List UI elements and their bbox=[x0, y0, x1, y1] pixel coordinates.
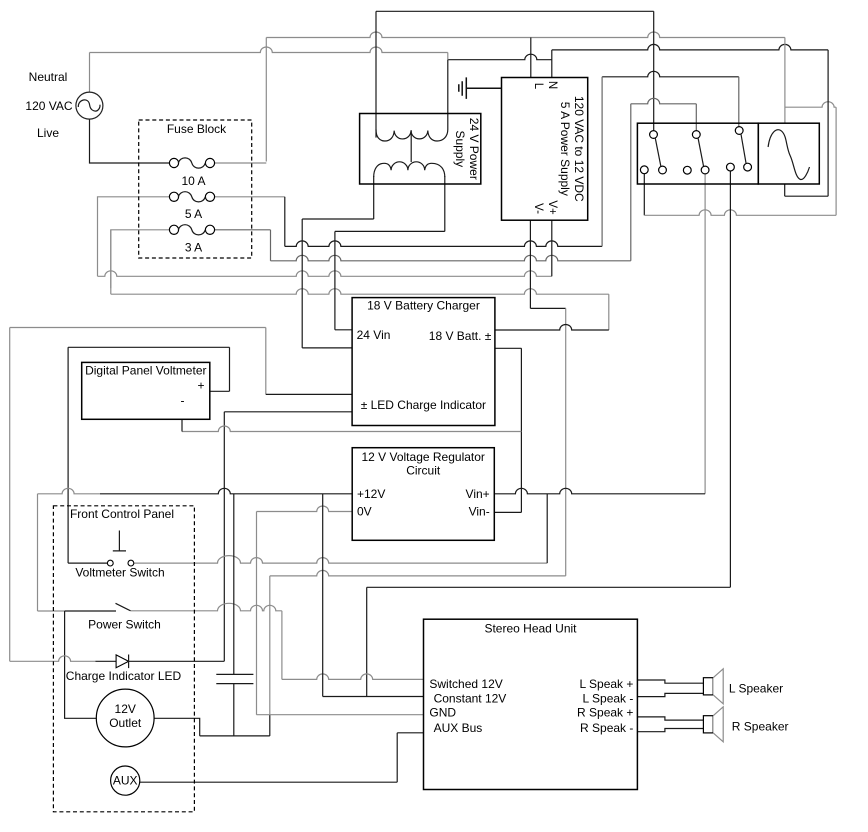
wire R speaker + lead bbox=[637, 717, 703, 720]
stereo head unit box bbox=[424, 619, 638, 789]
fuse block dashed box bbox=[139, 120, 252, 258]
svg-text:0V: 0V bbox=[357, 505, 372, 519]
wire riser x447.8 neutral down to transformer primary right bbox=[447, 60, 449, 130]
switch S1 arm terminal bbox=[659, 166, 667, 174]
wire 5A riser x284.8 down bbox=[284, 197, 286, 247]
wire voltmeter-switch feed top y327.5 bbox=[10, 327, 266, 329]
wire 5A fuse left to V+ rail riser bbox=[98, 197, 170, 276]
voltmeter switch plunger bbox=[113, 531, 126, 551]
wire transformer secondary right drop x444.8 bbox=[444, 176, 446, 231]
wire voltmeter plus riser x229.5 bbox=[229, 347, 231, 391]
svg-text:Switched 12V: Switched 12V bbox=[429, 677, 502, 691]
wire 3A to battery bus y294.2 bbox=[111, 289, 609, 295]
wire 3A fuse left bbox=[111, 230, 170, 288]
wire switch1 output y215.3 to right loop bbox=[644, 210, 836, 216]
wire secondary right riser x334.9 bbox=[334, 231, 336, 329]
svg-text:AUX: AUX bbox=[113, 774, 138, 788]
svg-text:L Speak +: L Speak + bbox=[579, 677, 633, 691]
wire charger pin2 y347.9 bbox=[302, 347, 352, 349]
svg-text:+12V: +12V bbox=[357, 487, 385, 501]
wire switched12V y679.4 bbox=[282, 674, 424, 680]
AUX jack circle bbox=[111, 766, 140, 795]
switch box bbox=[637, 123, 758, 184]
wire switch2 input riser x696.3 bbox=[695, 104, 697, 131]
switch S1 output terminal bbox=[640, 166, 648, 174]
svg-text:± LED Charge Indicator: ± LED Charge Indicator bbox=[361, 398, 486, 412]
wire L speaker + lead bbox=[637, 680, 703, 683]
R speaker icon bbox=[703, 716, 713, 733]
wire riser x376 top bus down to transformer primary left bbox=[375, 11, 377, 137]
wire V+ bus y276.3 bbox=[98, 271, 552, 277]
svg-text:5 A Power Supply: 5 A Power Supply bbox=[558, 102, 572, 196]
wire LED anode feed y661.3 bbox=[10, 656, 96, 662]
svg-text:V-: V- bbox=[532, 203, 544, 214]
svg-text:18 V Batt. ±: 18 V Batt. ± bbox=[429, 329, 492, 343]
wire N loop down x828.1 bbox=[827, 50, 829, 196]
svg-text:Power Switch: Power Switch bbox=[88, 618, 161, 632]
switch S1 arm bbox=[655, 138, 661, 166]
wire N loop bottom y196.2 bbox=[785, 195, 828, 197]
wire 10A fuse output to riser bbox=[215, 162, 267, 164]
wire LED drop x224.3 bbox=[223, 412, 225, 662]
wire inverter top feed y107.2 bbox=[785, 102, 836, 107]
wire Vin- y512.4 bbox=[494, 511, 521, 513]
wire outlet return y735.9 bbox=[200, 735, 270, 737]
wire switch3 input riser x738.8 bbox=[738, 77, 740, 127]
switch S2 arm bbox=[698, 138, 703, 166]
wire switch1 input riser x653.7 bbox=[653, 11, 655, 130]
svg-text:Supply: Supply bbox=[453, 130, 467, 167]
switch S3 arm terminal bbox=[744, 163, 752, 171]
wire +12V rail left gray part y493.8 bbox=[38, 488, 101, 493]
wire inverter top riser x784.9 bbox=[784, 38, 786, 124]
svg-text:Charge Indicator LED: Charge Indicator LED bbox=[66, 669, 182, 683]
svg-text:Stereo Head Unit: Stereo Head Unit bbox=[484, 622, 577, 636]
wire outlet left feed x64.6 bbox=[65, 611, 97, 718]
wire secondary left y219 bbox=[302, 218, 374, 220]
svg-text:3 A: 3 A bbox=[185, 241, 202, 255]
svg-text:+: + bbox=[197, 379, 204, 393]
inverter sine wave bbox=[768, 130, 809, 180]
wire 3A right riser x270.5 down bbox=[270, 230, 272, 261]
wire switch2 output drop x705.1 to +12V rail bbox=[704, 174, 706, 494]
wire voltmeter plus top y347.3 bbox=[68, 346, 229, 348]
fuse F2 5A bbox=[169, 192, 178, 201]
18V battery charger box bbox=[352, 298, 495, 426]
svg-text:120 VAC to 12 VDC: 120 VAC to 12 VDC bbox=[572, 96, 586, 202]
front control panel dashed box bbox=[53, 506, 194, 812]
digital panel voltmeter box bbox=[82, 362, 210, 419]
wire +12V rail left y493.8 bbox=[100, 488, 352, 493]
svg-text:Constant 12V: Constant 12V bbox=[434, 691, 507, 705]
wire 0V drop x256.5 bbox=[256, 512, 258, 715]
AC source sine bbox=[78, 100, 100, 111]
wire constant12V y696.5 bbox=[323, 696, 424, 698]
transformer primary coil bbox=[376, 130, 448, 142]
svg-text:24 Vin: 24 Vin bbox=[357, 328, 391, 342]
wire switch1 output drop x644.3 bbox=[643, 174, 645, 215]
wire inverter bottom stub x784.7 bbox=[784, 184, 786, 196]
12V voltage regulator box bbox=[352, 448, 494, 541]
voltmeter switch right terminal bbox=[128, 560, 134, 566]
wire switch3 feed y76.8 bbox=[602, 71, 739, 77]
wire LED cathode y661.3 bbox=[129, 660, 225, 662]
wire AUX line y782 bbox=[140, 781, 397, 783]
switch S2 spare terminal bbox=[683, 166, 691, 174]
svg-text:5 A: 5 A bbox=[185, 207, 202, 221]
wire 18V batt- y348.3 bbox=[495, 347, 522, 349]
svg-text:L Speak -: L Speak - bbox=[582, 691, 633, 705]
svg-text:N: N bbox=[546, 81, 558, 89]
ground symbol bbox=[459, 77, 502, 99]
wire neutral y52.5 from AC source to transformer right riser bbox=[90, 47, 448, 52]
svg-text:L Speaker: L Speaker bbox=[729, 681, 783, 695]
svg-text:Circuit: Circuit bbox=[406, 464, 441, 478]
wire Vin+ rail y493.8 right bbox=[494, 488, 705, 493]
switch S1 input terminal bbox=[650, 131, 658, 139]
wire voltmeter switch riser x547.2 bbox=[546, 494, 548, 563]
wire 18V batt+ y330 bbox=[495, 325, 609, 331]
wire left drop x9.7 bbox=[9, 328, 11, 662]
wire voltmeter plus pin y391.3 bbox=[210, 390, 230, 392]
fuse F1 10A bbox=[169, 158, 178, 167]
svg-text:Voltmeter Switch: Voltmeter Switch bbox=[75, 566, 164, 580]
wire V- to outlet return x269.8 lower bbox=[269, 715, 271, 736]
wire power supply L pin riser x530.8 bbox=[530, 38, 532, 78]
svg-text:120 VAC: 120 VAC bbox=[25, 99, 72, 113]
wire charger 24Vin pin y329.8 bbox=[335, 329, 352, 331]
wire R speaker - lead bbox=[637, 729, 703, 732]
power switch arm bbox=[116, 603, 131, 611]
wire N net y49.9 from N pin to right loop bbox=[552, 44, 828, 49]
wire voltmeter plus drop x68.1 bbox=[67, 347, 69, 563]
wire 5A fuse right bbox=[215, 196, 285, 198]
svg-text:-: - bbox=[181, 394, 185, 408]
svg-text:Outlet: Outlet bbox=[109, 716, 142, 730]
svg-text:24 V Power: 24 V Power bbox=[467, 118, 481, 180]
wire capacitor bottom lead x233.8 bbox=[233, 684, 235, 736]
wire switch2 feed y103.8 bbox=[631, 98, 697, 104]
120VAC-12VDC power supply box U1 bbox=[502, 78, 588, 221]
svg-text:AUX Bus: AUX Bus bbox=[434, 721, 483, 735]
wire voltmeter minus bus y431.5 bbox=[182, 426, 521, 432]
wire voltmeter minus pin stub x182 bbox=[181, 419, 183, 431]
svg-text:R Speak -: R Speak - bbox=[580, 721, 633, 735]
svg-text:V+: V+ bbox=[546, 200, 558, 215]
wire V- drop x565.7 bbox=[565, 308, 567, 576]
wire V- bus y575.9 bbox=[270, 570, 566, 576]
wire V- drop x269.8 bbox=[269, 576, 271, 715]
wire riser x447.8 neutral upper bbox=[447, 53, 449, 60]
wire charger pin3 riser x265.8 bbox=[265, 328, 267, 395]
wire 3A to switch2 bus y260.8 bbox=[271, 255, 631, 260]
wire live/10A net y37.5 from fuse output riser to inverter top riser bbox=[266, 32, 785, 38]
svg-text:Vin+: Vin+ bbox=[466, 487, 490, 501]
wire V- pin drop x530.4 bbox=[529, 220, 531, 308]
svg-text:18 V Battery Charger: 18 V Battery Charger bbox=[367, 299, 480, 313]
wire switch3 feed riser x602.1 bbox=[601, 77, 603, 247]
wire constant12V drop x366.7 bbox=[366, 587, 368, 696]
svg-text:Live: Live bbox=[37, 126, 59, 140]
switch S2 arm terminal bbox=[701, 166, 709, 174]
wire right loop riser x836.1 bbox=[835, 107, 837, 215]
svg-text:12V: 12V bbox=[115, 702, 136, 716]
wire 18V batt- drop x521.4 to Vin- bbox=[520, 348, 522, 512]
24V power supply box bbox=[360, 114, 481, 185]
wire voltmeter switch left wire y563.1 bbox=[68, 562, 108, 564]
wire AUX riser x397.2 bbox=[396, 733, 398, 782]
12V outlet circle bbox=[96, 689, 154, 747]
wire secondary right y231.4 bbox=[335, 230, 445, 232]
wire AUX bus pin y732.8 bbox=[397, 732, 423, 734]
wire switch2 feed riser x630.8 bbox=[630, 104, 632, 261]
wire AC source top stub bbox=[89, 53, 91, 93]
wire L speaker - lead bbox=[637, 693, 703, 696]
svg-text:R Speak +: R Speak + bbox=[577, 706, 633, 720]
switch S2 input terminal bbox=[692, 131, 700, 139]
transformer center tap bbox=[410, 130, 412, 162]
wire neutral branch y59.7 to power supply N pin bbox=[448, 54, 552, 60]
L speaker icon bbox=[703, 678, 713, 695]
wire power switch line left y611 bbox=[65, 610, 116, 612]
wire voltmeter switch output y563.1 bbox=[134, 556, 547, 563]
svg-text:Vin-: Vin- bbox=[469, 505, 490, 519]
wire 3A fuse right bbox=[215, 229, 271, 231]
diode charge indicator LED bbox=[116, 655, 129, 668]
svg-text:L: L bbox=[532, 83, 544, 90]
svg-text:R Speaker: R Speaker bbox=[732, 719, 789, 733]
svg-text:10 A: 10 A bbox=[181, 174, 205, 188]
svg-text:Neutral: Neutral bbox=[29, 70, 68, 84]
wire transformer secondary left drop x373.7 bbox=[373, 176, 375, 219]
wire 5A to switch3 bus y246.4 bbox=[285, 241, 602, 247]
capacitor C1 bbox=[216, 674, 253, 683]
wire GND y714.7 bbox=[257, 714, 424, 716]
voltmeter switch left terminal bbox=[107, 560, 113, 566]
wire secondary left riser x302.2 bbox=[301, 219, 303, 348]
inverter outlet box bbox=[758, 123, 819, 184]
svg-text:GND: GND bbox=[429, 706, 456, 720]
wire LED anode black y661.3 bbox=[95, 660, 116, 662]
wire riser x266.3 fuse 10A output up bbox=[265, 38, 267, 162]
wire V- y308.4 bbox=[530, 307, 565, 309]
wire 3A left riser x110.8 bbox=[110, 230, 112, 294]
wire AC source bottom stub to 10A fuse bbox=[90, 119, 170, 163]
wire battery riser x608.8 bbox=[608, 294, 610, 330]
wire V+ pin riser x551.8 bbox=[551, 220, 553, 276]
wire +12V drop x37.5 to power switch bbox=[37, 494, 39, 611]
svg-text:12 V Voltage Regulator: 12 V Voltage Regulator bbox=[361, 450, 484, 464]
svg-text:Fuse Block: Fuse Block bbox=[167, 122, 227, 136]
wire capacitor top lead x233.8 bbox=[233, 494, 235, 675]
wire charger pin3 y394.4 bbox=[266, 393, 352, 395]
wire +12V drop x322.7 bbox=[322, 494, 324, 697]
AC source circle bbox=[76, 92, 103, 119]
fuse F3 3A bbox=[169, 225, 178, 234]
wire power supply N pin riser x551.8 bbox=[551, 50, 553, 78]
switch S3 arm bbox=[741, 134, 746, 163]
svg-text:Digital Panel Voltmeter: Digital Panel Voltmeter bbox=[85, 364, 206, 378]
wire power switch output drop x281.9 bbox=[281, 611, 283, 680]
switch S3 input terminal bbox=[735, 127, 743, 135]
svg-text:Front Control Panel: Front Control Panel bbox=[70, 507, 174, 521]
wire 0V line y511.5 bbox=[257, 506, 353, 512]
switch S3 output terminal bbox=[727, 163, 735, 171]
wire top bus y11 from transformer primary left to switch 1 input bbox=[376, 10, 654, 12]
wire switch3 output drop x730.4 bbox=[729, 171, 731, 587]
wire power switch output y610.8 bbox=[131, 603, 282, 610]
wire constant12V feed y587.3 bbox=[367, 586, 731, 588]
wire charger LED pin y411.8 bbox=[224, 411, 352, 413]
wire power switch line left gray y611 bbox=[38, 610, 65, 612]
transformer secondary coil bbox=[374, 162, 445, 177]
wire outlet right jog bbox=[154, 718, 200, 736]
